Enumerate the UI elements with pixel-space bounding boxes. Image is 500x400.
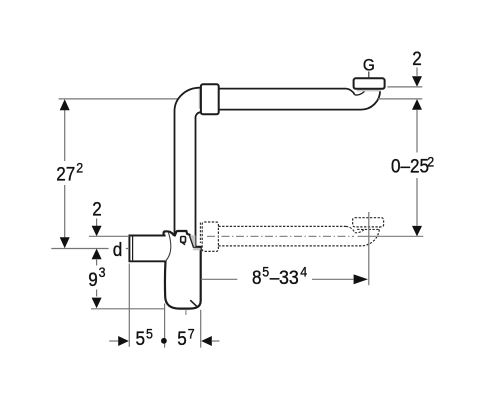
dashed strip left of telescopic nut (199, 223, 201, 244)
svg-text:G: G (363, 57, 375, 74)
dim d/27-2 bottom ext line (51, 248, 129, 250)
dim 9-3 vertical line lower (96, 290, 98, 297)
dim 2-left vertical line (96, 219, 98, 227)
pipe end inner arc under wall nut (355, 91, 365, 95)
dim 9-3 arrow down (92, 298, 102, 309)
clip detail square (181, 237, 186, 243)
dim 2-left arrow down (92, 226, 102, 237)
dim 27-2 arrow down (60, 237, 70, 248)
svg-text:2: 2 (412, 48, 422, 69)
inlet pipe end face line (132, 236, 134, 260)
dim 0-25-2 vertical line upper (416, 110, 418, 153)
dashed telescopic pipe top edge (218, 225, 346, 227)
gray shade right of clip tab (190, 235, 195, 247)
centerline dash-dot of telescopic pipe (207, 235, 354, 237)
G leader line (368, 72, 370, 78)
dim 5-5 arrow right-pointing (118, 336, 129, 346)
dim 8-5 33-4 right ext line (368, 212, 370, 285)
clip detail diagonal (182, 242, 185, 245)
wire dim ext line top-left (272 top reference) (59, 98, 178, 100)
dim 2-right vertical line (416, 68, 418, 76)
trap bottom-right surface tick (190, 300, 197, 307)
dim 27-2 arrow up (60, 99, 70, 110)
pipe end notch curve under wall nut (346, 89, 355, 95)
dim 5-7 arrow left-pointing (201, 336, 212, 346)
horizontal pipe bottom edge with J-bend (219, 91, 380, 110)
dim 2-left top ext line (89, 235, 129, 237)
svg-text:3: 3 (99, 264, 106, 280)
dim 9-3 vertical line upper (96, 259, 98, 266)
inlet pipe edges (129, 236, 165, 262)
svg-text:33: 33 (279, 267, 299, 289)
svg-text:2: 2 (76, 160, 83, 176)
dashed notch curve at telescopic end (346, 226, 355, 232)
dim separator dot (161, 338, 167, 344)
dim bottom ext line left (inlet tip) (128, 264, 130, 347)
svg-text:4: 4 (300, 264, 307, 280)
wall connection nut G (354, 78, 385, 89)
trap body front surface line (166, 232, 171, 261)
dim 9-3 arrow up (shared with 2-left) (92, 249, 102, 260)
svg-text:5: 5 (177, 328, 187, 349)
gray compression band under wall nut (357, 89, 381, 92)
pipe vertical right edge with inner elbow curve (196, 112, 201, 247)
dim bottom ext line center (164, 304, 166, 348)
dashed band under telescopic end nut (357, 228, 379, 230)
dim 5-5 arrow tail left (109, 340, 118, 342)
gray shade ledge under trap connector (193, 248, 201, 250)
svg-text:2: 2 (427, 154, 434, 170)
gray tick below trap bottom (185, 309, 187, 315)
svg-text:9: 9 (88, 269, 98, 290)
dim 0-25-2 arrow down (412, 226, 422, 237)
dim 0-25-2 arrow up (412, 99, 422, 110)
svg-text:5: 5 (146, 326, 153, 342)
dashed telescopic nut at trap (202, 222, 218, 251)
dim 27-2 vertical line upper (64, 110, 66, 161)
dim bottom ext line right (200, 310, 202, 348)
dim 5-7 arrow tail right (212, 340, 220, 342)
dim 9-3 bottom ext line (91, 308, 165, 310)
dashed inner arc at telescopic end (355, 229, 365, 233)
pipe sleeve gray strip left of elbow nut (199, 89, 201, 109)
pipe elbow outer curve and vertical pipe left edge (175, 88, 201, 235)
svg-text:2: 2 (92, 198, 102, 219)
wire ext line right of telescopic end (358, 235, 424, 237)
svg-text:0–25: 0–25 (391, 156, 429, 177)
svg-text:7: 7 (188, 326, 195, 342)
dashed telescopic pipe bottom edge with J-bend (218, 228, 379, 246)
dim 2-right upper ext line (388, 86, 423, 88)
svg-text:27: 27 (56, 164, 75, 185)
horizontal pipe top edge (219, 88, 346, 90)
dim 8-5 33-4 line right part (312, 278, 353, 280)
dim 2-right arrow down (412, 76, 422, 87)
inlet pipe body (129, 236, 165, 262)
dashed telescopic end nut (353, 218, 384, 227)
svg-text:5: 5 (136, 328, 146, 349)
dim 8-5 33-4 arrow right-pointing (354, 274, 368, 284)
dim 27-2 vertical line lower (64, 185, 66, 239)
svg-text:5: 5 (262, 264, 269, 280)
elbow nut (201, 84, 219, 114)
svg-text:8: 8 (252, 267, 262, 288)
dim 0-25-2 vertical line lower (416, 178, 418, 226)
trap body outline (164, 231, 201, 309)
dim 2-right lower ext line (378, 98, 423, 100)
svg-text:d: d (113, 239, 123, 260)
dim 8-5 33-4 line left part (201, 278, 238, 280)
